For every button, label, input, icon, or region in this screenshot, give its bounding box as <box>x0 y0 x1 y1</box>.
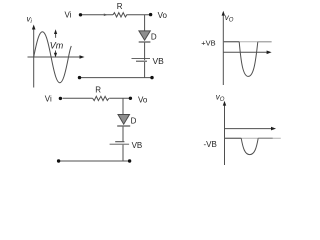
graph2 output axes <box>223 101 276 165</box>
wire battery to rail circuit2 <box>122 145 124 161</box>
node vi axis vertical <box>28 25 85 88</box>
wire top left circuit1 <box>82 14 113 16</box>
node bottom right terminal circuit1 <box>150 76 153 79</box>
svg-text:Vi: Vi <box>65 11 72 20</box>
wire output flat before dip graph2 <box>225 137 242 139</box>
wire junction to diode circuit2 <box>122 98 124 114</box>
wire diode to battery circuit1 <box>144 43 146 61</box>
diode D1 <box>139 31 150 40</box>
graph1 output axes <box>222 11 272 85</box>
wire output flat after dip graph2 <box>258 137 273 139</box>
svg-text:VB: VB <box>153 56 165 66</box>
node bottom left terminal circuit1 <box>78 76 81 79</box>
node Vo terminal circuit2 <box>129 97 132 100</box>
wire junction to diode circuit1 <box>144 15 146 31</box>
battery VB2 <box>115 141 124 143</box>
svg-text:R: R <box>95 85 101 94</box>
svg-text:Vo: Vo <box>158 11 168 20</box>
svg-text:vO: vO <box>225 13 234 24</box>
wire output dip graph2 <box>241 138 258 154</box>
node -VB level line graph2 <box>225 137 281 139</box>
battery VB1 <box>132 58 151 60</box>
svg-text:+VB: +VB <box>201 39 215 48</box>
resistor R1 <box>113 13 128 17</box>
wire bottom rail circuit1 <box>80 77 153 79</box>
wire output after dip graph1 <box>258 41 272 43</box>
node Vm arrows <box>54 29 57 57</box>
wire top right circuit1 <box>128 14 150 16</box>
node current arrow circuit1 <box>104 14 108 17</box>
wire input sine wave <box>34 32 72 83</box>
svg-text:vi: vi <box>27 15 33 26</box>
wire diode to battery circuit2 <box>122 127 124 142</box>
wire bottom rail circuit2 <box>59 160 130 162</box>
resistor R2 <box>93 96 109 100</box>
wire top left circuit2 <box>63 97 93 99</box>
svg-text:D: D <box>151 33 157 42</box>
svg-text:Vo: Vo <box>138 95 148 104</box>
svg-text:VB: VB <box>132 141 143 150</box>
node Vo terminal circuit1 <box>149 13 152 16</box>
node bottom right terminal circuit2 <box>128 159 131 162</box>
svg-text:-VB: -VB <box>204 140 217 149</box>
wire battery to rail circuit1 <box>144 62 146 78</box>
wire output dip graph1 <box>239 42 258 77</box>
wire output flat at +VB graph1 <box>223 41 239 43</box>
svg-text:vO: vO <box>216 93 225 104</box>
node +VB level line graph1 <box>223 41 271 43</box>
svg-text:R: R <box>117 2 123 11</box>
svg-text:Vi: Vi <box>45 95 52 104</box>
svg-text:D: D <box>131 117 137 126</box>
diode D2 <box>118 115 130 125</box>
wire top right circuit2 <box>109 97 129 99</box>
node bottom left terminal circuit2 <box>57 159 60 162</box>
svg-text:Vm: Vm <box>50 40 64 50</box>
